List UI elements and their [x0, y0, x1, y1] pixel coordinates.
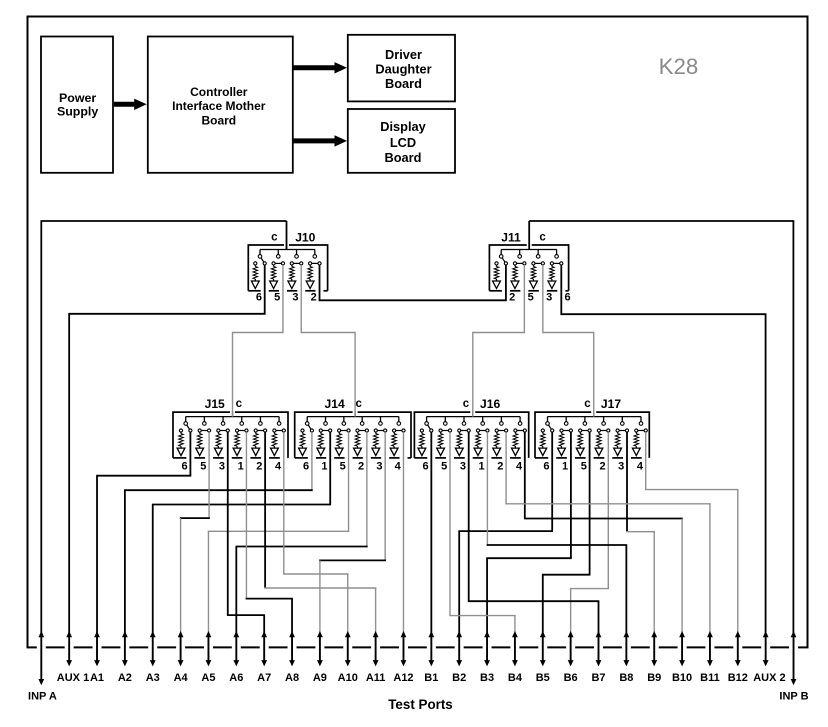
svg-text:J17: J17 [601, 397, 621, 411]
wire J16 pin 1 to port B8 [487, 432, 628, 633]
relay J10 contact set pin 2 (with termination resistor and ground arrow) [306, 250, 321, 304]
wire J11 pin 6 to port AUX 2 [561, 265, 765, 634]
relay J11 contact set pin 5 (with termination resistor and ground arrow) [511, 250, 534, 304]
wire J10 pin 3 to J14 common [301, 265, 355, 417]
wire J16 pin 4 to port B10 [524, 432, 683, 633]
wire J17 pin 3 to port B9 [626, 432, 655, 633]
relay J11 contact set pin 2 (with termination resistor and ground arrow) [493, 250, 516, 304]
wire J10 pin 5 to J15 common [233, 265, 283, 417]
relay J10 contact set pin 6 (with termination resistor and ground arrow) [251, 250, 266, 304]
svg-text:2: 2 [311, 292, 317, 304]
svg-text:3: 3 [546, 292, 552, 304]
label J15 [205, 397, 225, 411]
svg-text:Board: Board [385, 76, 422, 91]
relay block J16 box, common bus and c entry [414, 412, 528, 458]
svg-text:LCD: LCD [390, 135, 416, 150]
test port B2 (bidirectional arrow through cabinet wall) [452, 631, 466, 684]
label J16 [480, 397, 500, 411]
relay J15 contact set pin 5 (with termination resistor and ground arrow) [196, 417, 211, 473]
relay J16 contact set pin 6 (with termination resistor and ground arrow) [418, 417, 433, 473]
svg-text:Board: Board [201, 113, 236, 127]
svg-text:B7: B7 [591, 672, 605, 684]
svg-text:2: 2 [497, 461, 503, 473]
wire INP B to J11 common (node c of J11) [529, 221, 794, 634]
relay J17 contact set pin 2 (with termination resistor and ground arrow) [595, 417, 610, 473]
svg-text:c: c [355, 398, 362, 410]
relay J16 contact set pin 4 (with termination resistor and ground arrow) [512, 417, 527, 473]
svg-text:c: c [463, 398, 470, 410]
svg-text:INP A: INP A [28, 691, 57, 703]
test port A4 (bidirectional arrow through cabinet wall) [174, 631, 189, 684]
caption Test Ports [388, 697, 453, 712]
svg-text:B6: B6 [564, 672, 578, 684]
svg-text:4: 4 [637, 461, 644, 473]
svg-text:5: 5 [200, 461, 206, 473]
label c (common) of J16 [463, 398, 470, 410]
svg-text:B4: B4 [508, 672, 523, 684]
svg-text:A6: A6 [229, 672, 243, 684]
relay block J14 box, common bus and c entry [295, 412, 411, 458]
svg-text:6: 6 [543, 461, 549, 473]
svg-text:A2: A2 [118, 672, 132, 684]
svg-text:A9: A9 [313, 672, 327, 684]
wire J15 pin 1 to port A8 [246, 432, 293, 633]
svg-text:J15: J15 [205, 397, 225, 411]
svg-text:Test Ports: Test Ports [388, 697, 453, 712]
relay J16 contact set pin 2 (with termination resistor and ground arrow) [493, 417, 508, 473]
test port A6 (bidirectional arrow through cabinet wall) [229, 631, 243, 684]
svg-text:A1: A1 [90, 672, 104, 684]
svg-text:6: 6 [303, 461, 309, 473]
relay J14 contact set pin 6 (with termination resistor and ground arrow) [299, 417, 314, 473]
test port B6 (bidirectional arrow through cabinet wall) [564, 631, 578, 684]
svg-text:1: 1 [562, 461, 568, 473]
svg-text:B12: B12 [728, 672, 748, 684]
relay block J17 box, common bus and c entry [535, 412, 649, 458]
svg-text:Driver: Driver [385, 47, 422, 62]
svg-text:A10: A10 [338, 672, 358, 684]
relay J17 contact set pin 6 (with termination resistor and ground arrow) [539, 417, 554, 473]
svg-text:3: 3 [618, 461, 624, 473]
display LCD board block [348, 109, 455, 173]
svg-text:6: 6 [256, 292, 262, 304]
power supply block [41, 37, 113, 173]
wire J14 pin 1 to port A3 [152, 432, 331, 633]
test port B4 (bidirectional arrow through cabinet wall) [508, 631, 523, 684]
wire J16 pin 2 to port B11 [505, 432, 710, 633]
relay J14 contact set pin 5 (with termination resistor and ground arrow) [335, 417, 350, 473]
relay J14 contact set pin 4 (with termination resistor and ground arrow) [390, 417, 405, 473]
bus arrow power supply to controller [114, 99, 147, 110]
svg-text:B8: B8 [619, 672, 633, 684]
test port AUX 2 (bidirectional arrow through cabinet wall) [753, 631, 785, 684]
svg-text:Controller: Controller [190, 85, 248, 99]
relay J16 contact set pin 5 (with termination resistor and ground arrow) [437, 417, 452, 473]
svg-text:K28: K28 [659, 54, 699, 79]
svg-text:J11: J11 [501, 231, 521, 245]
wire J17 pin 4 to port B12 [645, 432, 739, 633]
svg-text:A11: A11 [366, 672, 386, 684]
wire J16 pin 5 to port B4 [449, 432, 516, 633]
relay J15 contact set pin 3 (with termination resistor and ground arrow) [214, 417, 229, 473]
relay J17 contact set pin 5 (with termination resistor and ground arrow) [576, 417, 591, 473]
bus arrow controller to display LCD board [294, 135, 348, 146]
svg-text:B2: B2 [452, 672, 466, 684]
test port INP A (bidirectional arrow through cabinet wall) [28, 631, 57, 703]
svg-text:B11: B11 [700, 672, 720, 684]
relay block J15 box, common bus and c entry [173, 412, 288, 458]
test port B3 (bidirectional arrow through cabinet wall) [480, 631, 494, 684]
label c (common) of J17 [584, 398, 591, 410]
label c (common) of J10 [271, 232, 278, 244]
svg-text:AUX 2: AUX 2 [753, 672, 785, 684]
relay J11 contact set pin 3 (with termination resistor and ground arrow) [530, 250, 553, 304]
svg-text:B9: B9 [647, 672, 661, 684]
svg-text:Daughter: Daughter [375, 62, 431, 77]
svg-text:Display: Display [380, 119, 426, 134]
svg-text:A3: A3 [146, 672, 160, 684]
relay block J11 box, common bus and c entry [489, 245, 568, 291]
svg-text:6: 6 [422, 461, 428, 473]
wire J15 pin 5 to port A4 [180, 432, 210, 633]
relay J10 contact set pin 5 (with termination resistor and ground arrow) [270, 250, 285, 304]
svg-text:2: 2 [256, 461, 262, 473]
wire J14 pin 2 to port A6 [236, 432, 368, 633]
svg-text:3: 3 [219, 461, 225, 473]
title K28 [659, 54, 699, 79]
wire J17 pin 6 to port B2 [458, 432, 553, 633]
test port A12 (bidirectional arrow through cabinet wall) [393, 631, 413, 684]
svg-text:A5: A5 [201, 672, 215, 684]
test port B8 (bidirectional arrow through cabinet wall) [619, 631, 633, 684]
svg-text:c: c [539, 232, 546, 244]
test port B12 (bidirectional arrow through cabinet wall) [728, 631, 748, 684]
label J10 [295, 231, 315, 245]
controller interface mother board block [148, 37, 293, 173]
test port A7 (bidirectional arrow through cabinet wall) [257, 631, 271, 684]
svg-text:5: 5 [340, 461, 346, 473]
test port B10 (bidirectional arrow through cabinet wall) [672, 631, 692, 684]
wire J17 pin 5 to port B5 [542, 432, 590, 633]
relay J17 contact set pin 3 (with termination resistor and ground arrow) [614, 417, 629, 473]
svg-text:A7: A7 [257, 672, 271, 684]
test port B7 (bidirectional arrow through cabinet wall) [591, 631, 605, 684]
test port A5 (bidirectional arrow through cabinet wall) [201, 631, 215, 684]
svg-text:J14: J14 [325, 397, 345, 411]
svg-text:5: 5 [528, 292, 534, 304]
label J14 [325, 397, 345, 411]
wire J11 pin 3 to J17 common [543, 265, 594, 417]
svg-text:1: 1 [479, 461, 485, 473]
test port A11 (bidirectional arrow through cabinet wall) [366, 631, 386, 684]
wire J15 pin 2 to port A11 [264, 432, 376, 633]
wire J17 pin 1 to port B3 [486, 432, 571, 633]
wire J10 pin 6 to port AUX 1 [69, 265, 265, 634]
svg-text:6: 6 [182, 461, 188, 473]
wire INP A to J10 common (node c of J10) [40, 221, 286, 634]
test port AUX 1 (bidirectional arrow through cabinet wall) [57, 631, 89, 684]
svg-text:A8: A8 [285, 672, 299, 684]
relay block J10 box, common bus and c entry [248, 245, 327, 291]
relay J11 contact set pin 6 (with termination resistor and ground arrow) [548, 250, 571, 304]
svg-text:3: 3 [376, 461, 382, 473]
svg-text:5: 5 [441, 461, 447, 473]
svg-text:4: 4 [516, 461, 523, 473]
test port A9 (bidirectional arrow through cabinet wall) [313, 631, 327, 684]
svg-text:Interface Mother: Interface Mother [172, 99, 266, 113]
svg-text:A4: A4 [174, 672, 189, 684]
svg-text:B5: B5 [536, 672, 550, 684]
test port INP B (bidirectional arrow through cabinet wall) [779, 631, 808, 703]
svg-text:B1: B1 [424, 672, 438, 684]
bus arrow controller to driver daughter board [294, 62, 348, 73]
svg-text:AUX 1: AUX 1 [57, 672, 89, 684]
svg-text:1: 1 [238, 461, 244, 473]
svg-text:B3: B3 [480, 672, 494, 684]
svg-text:3: 3 [460, 461, 466, 473]
wire J16 pin 6 to port B1 [430, 432, 432, 633]
svg-text:A12: A12 [393, 672, 413, 684]
svg-text:2: 2 [599, 461, 605, 473]
relay J16 contact set pin 1 (with termination resistor and ground arrow) [474, 417, 489, 473]
label c (common) of J14 [355, 398, 362, 410]
label J17 [601, 397, 621, 411]
test port B11 (bidirectional arrow through cabinet wall) [700, 631, 720, 684]
wire J11 pin 5 to J16 common [473, 265, 525, 417]
relay J15 contact set pin 6 (with termination resistor and ground arrow) [177, 417, 192, 473]
svg-text:1: 1 [321, 461, 327, 473]
svg-text:Board: Board [385, 150, 422, 165]
wire J15 pin 6 to port A1 [96, 432, 191, 633]
svg-text:c: c [271, 232, 278, 244]
relay J15 contact set pin 4 (with termination resistor and ground arrow) [271, 417, 286, 473]
relay J14 contact set pin 1 (with termination resistor and ground arrow) [317, 417, 332, 473]
test port A2 (bidirectional arrow through cabinet wall) [118, 631, 132, 684]
relay J17 contact set pin 4 (with termination resistor and ground arrow) [632, 417, 647, 473]
svg-text:3: 3 [292, 292, 298, 304]
label c (common) of J15 [236, 398, 243, 410]
wire J14 pin 5 to port A5 [208, 432, 350, 633]
svg-text:Supply: Supply [57, 104, 98, 118]
svg-text:4: 4 [395, 461, 402, 473]
wire J14 pin 4 to port A12 [402, 432, 404, 633]
test port A1 (bidirectional arrow through cabinet wall) [90, 631, 104, 684]
svg-text:INP B: INP B [779, 691, 808, 703]
wire J14 pin 3 to port A9 [319, 432, 386, 633]
svg-text:2: 2 [358, 461, 364, 473]
svg-text:c: c [584, 398, 591, 410]
relay J10 contact set pin 3 (with termination resistor and ground arrow) [288, 250, 303, 304]
test port B1 (bidirectional arrow through cabinet wall) [424, 631, 438, 684]
label c (common) of J11 [539, 232, 546, 244]
svg-text:Power: Power [59, 91, 96, 105]
test port A3 (bidirectional arrow through cabinet wall) [146, 631, 160, 684]
relay J14 contact set pin 2 (with termination resistor and ground arrow) [354, 417, 369, 473]
svg-text:c: c [236, 398, 243, 410]
wire J15 pin 4 to port A10 [283, 432, 349, 633]
svg-text:6: 6 [565, 292, 571, 304]
wire J14 pin 6 to port A2 [124, 432, 313, 633]
test port A10 (bidirectional arrow through cabinet wall) [338, 631, 358, 684]
svg-text:5: 5 [274, 292, 280, 304]
wire J16 pin 3 to port B7 [468, 432, 599, 633]
svg-text:J10: J10 [295, 231, 315, 245]
relay J16 contact set pin 3 (with termination resistor and ground arrow) [455, 417, 470, 473]
svg-text:5: 5 [581, 461, 587, 473]
relay J15 contact set pin 1 (with termination resistor and ground arrow) [233, 417, 248, 473]
wire J17 pin 2 to port B6 [570, 432, 609, 633]
svg-text:J16: J16 [480, 397, 500, 411]
relay J14 contact set pin 3 (with termination resistor and ground arrow) [372, 417, 387, 473]
driver daughter board block [348, 35, 455, 102]
relay J15 contact set pin 2 (with termination resistor and ground arrow) [252, 417, 267, 473]
label J11 [501, 231, 521, 245]
svg-text:B10: B10 [672, 672, 692, 684]
svg-text:2: 2 [509, 292, 515, 304]
wire J15 pin 3 to port A7 [227, 432, 265, 633]
wire J10 pin 2 to J11 pin 2 (A-B crossover link) [320, 265, 506, 300]
svg-text:4: 4 [275, 461, 282, 473]
relay J17 contact set pin 1 (with termination resistor and ground arrow) [558, 417, 573, 473]
test port A8 (bidirectional arrow through cabinet wall) [285, 631, 299, 684]
test port B9 (bidirectional arrow through cabinet wall) [647, 631, 661, 684]
test port B5 (bidirectional arrow through cabinet wall) [536, 631, 550, 684]
